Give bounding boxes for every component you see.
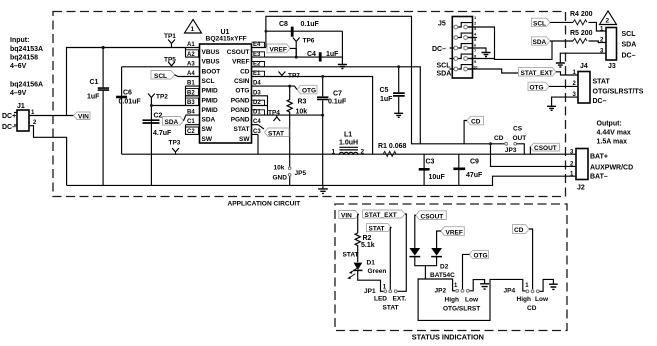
wire J1 pin2 DC- down to ground rail bbox=[29, 126, 67, 186]
svg-text:D1: D1 bbox=[367, 260, 376, 267]
svg-text:BAT–: BAT– bbox=[590, 174, 608, 181]
svg-text:C1: C1 bbox=[187, 119, 195, 125]
capacitor C8 0.1uF bbox=[279, 21, 320, 37]
svg-text:High: High bbox=[445, 297, 459, 304]
ground (J3 DC-) bbox=[556, 63, 565, 67]
svg-text:47uF: 47uF bbox=[466, 172, 483, 179]
svg-text:STAT: STAT bbox=[233, 126, 249, 133]
wire CSIN: E1 right, down between L1 and R1 bbox=[262, 77, 373, 155]
testpoint TP7 bbox=[279, 72, 301, 80]
capacitor C1 1uF bbox=[87, 48, 109, 186]
svg-text:TP7: TP7 bbox=[288, 73, 300, 80]
testpoint TP5 bbox=[164, 57, 176, 67]
net flag VIN bbox=[74, 112, 91, 120]
junction VREF bbox=[295, 56, 298, 59]
svg-text:STAT: STAT bbox=[593, 79, 611, 86]
inductor L1 1.0uH bbox=[332, 132, 365, 156]
wire OTG D4 bbox=[262, 86, 297, 89]
svg-text:B4: B4 bbox=[187, 110, 195, 116]
wire OTG to JP2 mid pin bbox=[463, 254, 470, 289]
svg-text:STAT_EXT: STAT_EXT bbox=[365, 212, 397, 219]
svg-text:STAT: STAT bbox=[343, 252, 359, 259]
U1 left pin names bbox=[202, 49, 221, 143]
testpoint TP3 bbox=[169, 140, 181, 155]
capacitor C5 1uF bbox=[380, 67, 405, 114]
svg-text:Output:: Output: bbox=[597, 121, 622, 128]
svg-text:VBUS: VBUS bbox=[202, 59, 221, 66]
net flag SDA (at U1) bbox=[163, 115, 186, 126]
ground (J5 DC-) bbox=[482, 53, 491, 57]
ground (VREF/C4) bbox=[338, 57, 347, 68]
wire CD: E2 right, down to CD rail bbox=[262, 67, 420, 144]
svg-text:JP2: JP2 bbox=[435, 288, 447, 295]
svg-text:PGND: PGND bbox=[231, 97, 250, 104]
net flag SCL (at U1) bbox=[151, 71, 186, 80]
svg-text:JP4: JP4 bbox=[504, 288, 516, 295]
wire J5 row3 to ground bbox=[468, 48, 486, 53]
capacitor C4 1uF bbox=[307, 51, 339, 62]
U1 left bracket C1-C2 bbox=[185, 125, 187, 135]
net flag CD (above JP3) bbox=[464, 116, 483, 144]
connector J3 bbox=[600, 27, 636, 71]
jumper JP1 bbox=[364, 285, 406, 312]
svg-text:SCL: SCL bbox=[154, 73, 167, 80]
net flag CSOUT (status) bbox=[416, 211, 447, 221]
net flag CSOUT (application circuit) bbox=[530, 143, 560, 154]
svg-text:1uF: 1uF bbox=[380, 96, 393, 103]
svg-text:1uF: 1uF bbox=[326, 51, 339, 58]
wire PMID B3 to C2 bbox=[151, 105, 185, 107]
svg-text:10uF: 10uF bbox=[429, 174, 446, 181]
wire VBUS: VIN up and across to A1 bbox=[67, 48, 186, 116]
svg-text:4–6V: 4–6V bbox=[10, 63, 27, 70]
svg-text:Input:: Input: bbox=[10, 37, 29, 44]
svg-text:PGND: PGND bbox=[231, 117, 250, 124]
IC U1 BQ2415xYFF bbox=[200, 29, 252, 143]
svg-text:BQ2415xYFF: BQ2415xYFF bbox=[206, 35, 247, 42]
dual diode D2 BAT54C bbox=[409, 248, 455, 279]
svg-text:SW: SW bbox=[202, 126, 213, 133]
svg-text:BAT54C: BAT54C bbox=[430, 272, 455, 279]
wire AUXPWR/CD to J2 pin2 bbox=[491, 144, 576, 167]
ground (C5) bbox=[394, 113, 403, 117]
connector J2 bbox=[570, 149, 633, 192]
LED D1 Green bbox=[347, 260, 386, 292]
svg-text:C2: C2 bbox=[154, 113, 163, 120]
svg-text:TP2: TP2 bbox=[156, 94, 168, 101]
svg-text:J5: J5 bbox=[438, 21, 446, 28]
junction CD rail bbox=[489, 142, 492, 145]
net flag VIN (status) bbox=[339, 211, 359, 220]
capacitor C3 10uF bbox=[419, 154, 446, 185]
svg-text:BOOT: BOOT bbox=[202, 68, 221, 75]
net flag STAT_EXT (status) bbox=[363, 210, 406, 219]
jumper JP5 bbox=[273, 165, 307, 186]
net flag STAT_EXT (to J4) bbox=[519, 68, 557, 77]
svg-text:5.1k: 5.1k bbox=[361, 242, 375, 249]
wire J4 pin3 to ground bbox=[552, 97, 578, 106]
note: input voltage text bbox=[10, 37, 43, 97]
resistor R5 200 bbox=[570, 30, 593, 43]
U1 right pin names bbox=[227, 49, 251, 143]
svg-text:bq24153A: bq24153A bbox=[10, 46, 43, 53]
svg-text:SCL: SCL bbox=[533, 20, 546, 27]
wire OTG to J4 pin2 bbox=[549, 85, 578, 87]
svg-text:C6: C6 bbox=[123, 90, 132, 97]
svg-text:PGND: PGND bbox=[231, 107, 250, 114]
U1 boxed pin numbers E4 E3 E2 E1 D2 D1 bbox=[252, 42, 265, 115]
junction OTG/R3 bbox=[288, 85, 291, 88]
svg-text:LED: LED bbox=[374, 296, 387, 303]
net flag VREF (status) bbox=[441, 227, 465, 237]
svg-text:B1: B1 bbox=[187, 81, 195, 87]
wire CD to JP4 pin1 bbox=[529, 229, 533, 289]
svg-text:C7: C7 bbox=[333, 91, 342, 98]
svg-text:10k: 10k bbox=[274, 165, 285, 172]
svg-text:CSOUT: CSOUT bbox=[227, 49, 250, 56]
wire J5 row1 to SDA net bbox=[468, 27, 552, 59]
svg-text:2: 2 bbox=[606, 18, 610, 25]
note triangle 2 bbox=[600, 11, 617, 25]
svg-text:J1: J1 bbox=[17, 103, 25, 110]
connector J5 bbox=[432, 17, 473, 79]
svg-text:SDA: SDA bbox=[437, 71, 452, 78]
svg-text:R3: R3 bbox=[298, 99, 307, 106]
svg-text:OTG: OTG bbox=[474, 252, 488, 259]
svg-text:TP6: TP6 bbox=[303, 38, 315, 45]
testpoint TP6 bbox=[293, 38, 315, 58]
wire BOOT A3 bbox=[122, 66, 186, 68]
junction VBUS/C1 bbox=[102, 46, 105, 49]
svg-text:DC–: DC– bbox=[2, 124, 16, 131]
dashed border: APPLICATION CIRCUIT box bbox=[53, 12, 566, 197]
svg-text:APPLICATION CIRCUIT: APPLICATION CIRCUIT bbox=[228, 200, 301, 207]
junction PGND/C7 bbox=[321, 114, 324, 117]
net flag SDA (to R5) bbox=[532, 37, 551, 46]
svg-text:C5: C5 bbox=[380, 87, 389, 94]
svg-text:STATUS INDICATION: STATUS INDICATION bbox=[412, 333, 484, 342]
U1 left pin numbers bbox=[187, 42, 195, 135]
wire C8 branch bbox=[266, 30, 343, 32]
svg-text:CD: CD bbox=[514, 227, 524, 234]
svg-text:PMID: PMID bbox=[202, 107, 219, 114]
dashed border: STATUS INDICATION box bbox=[335, 204, 567, 331]
svg-text:TP4: TP4 bbox=[268, 110, 280, 117]
svg-text:10k: 10k bbox=[296, 109, 308, 116]
jumper JP3 bbox=[494, 126, 526, 155]
svg-text:R4 200: R4 200 bbox=[570, 11, 593, 18]
svg-text:SCL: SCL bbox=[622, 31, 637, 38]
svg-text:L1: L1 bbox=[344, 132, 352, 139]
svg-text:BAT+: BAT+ bbox=[590, 154, 608, 161]
testpoint TP1 bbox=[164, 33, 176, 48]
svg-text:J2: J2 bbox=[577, 185, 585, 192]
svg-text:OTG: OTG bbox=[235, 88, 249, 95]
svg-text:A3: A3 bbox=[187, 61, 195, 67]
U1 left bracket B1-B3 bbox=[185, 86, 187, 105]
ground (JP2, rotated) bbox=[470, 280, 485, 291]
svg-text:1.0uH: 1.0uH bbox=[339, 140, 358, 147]
jumper JP2 bbox=[435, 283, 481, 313]
resistor R1 0.068 bbox=[378, 143, 407, 156]
wire SCL to R4 to J3 pin1 bbox=[550, 22, 606, 31]
svg-text:bq24158: bq24158 bbox=[10, 55, 38, 62]
svg-text:PMID: PMID bbox=[202, 88, 219, 95]
svg-text:STAT: STAT bbox=[369, 226, 385, 233]
svg-text:OTG: OTG bbox=[302, 87, 316, 94]
resistor R2 5.1k bbox=[355, 233, 375, 262]
svg-text:SCL: SCL bbox=[202, 78, 215, 85]
jumper JP4 bbox=[504, 283, 549, 312]
note: output voltage text bbox=[597, 121, 631, 146]
wire VIN to R2 bbox=[358, 215, 359, 234]
junction CSOUT/C8 bbox=[265, 30, 268, 33]
svg-text:C1: C1 bbox=[90, 79, 99, 86]
capacitor C6 0.01uF (on BOOT line) bbox=[116, 67, 141, 154]
junction PMID bbox=[150, 104, 153, 107]
testpoint TP2 bbox=[148, 94, 168, 101]
svg-text:SW: SW bbox=[239, 136, 250, 143]
wire J3 pin3 to ground bbox=[560, 53, 606, 63]
svg-text:Low: Low bbox=[465, 297, 479, 304]
svg-text:VBUS: VBUS bbox=[202, 49, 221, 56]
svg-text:C9: C9 bbox=[470, 159, 479, 166]
svg-text:2: 2 bbox=[361, 148, 365, 155]
svg-text:D2: D2 bbox=[440, 264, 449, 271]
wire J5 row4 stub bbox=[468, 58, 495, 60]
svg-text:SW: SW bbox=[202, 136, 213, 143]
wire CSOUT to D2 left anode bbox=[415, 215, 416, 248]
svg-text:J3: J3 bbox=[608, 63, 616, 70]
capacitor C2 4.7uF (PMID) bbox=[143, 98, 173, 185]
svg-text:OTG: OTG bbox=[530, 84, 544, 91]
U1 left pin stubs A1-C2 bbox=[186, 48, 200, 135]
svg-text:JP1: JP1 bbox=[364, 288, 376, 295]
wire CSOUT: E4 up over to x411.5 down to CD rail bbox=[266, 16, 506, 144]
junction CSIN/C7 bbox=[321, 75, 324, 78]
svg-text:DC–: DC– bbox=[432, 46, 446, 53]
svg-text:STAT_EXT: STAT_EXT bbox=[521, 70, 553, 77]
wire J1 pin1 to VIN bbox=[29, 115, 74, 117]
wire STAT_EXT to J4 pin1 bbox=[556, 72, 578, 75]
svg-text:PMID: PMID bbox=[202, 97, 219, 104]
svg-text:R2: R2 bbox=[363, 235, 372, 242]
U1 left bracket A1-A2 bbox=[185, 48, 187, 58]
svg-text:VREF: VREF bbox=[270, 46, 287, 53]
svg-text:bq24156A: bq24156A bbox=[10, 82, 43, 89]
wire SW C3 pin down to rail bbox=[257, 134, 259, 154]
wire J5 row5 to STAT_EXT flag bbox=[468, 69, 519, 73]
svg-text:1: 1 bbox=[191, 26, 195, 33]
svg-text:CS: CS bbox=[513, 126, 523, 133]
svg-text:A4: A4 bbox=[187, 71, 195, 77]
svg-text:SDA: SDA bbox=[202, 117, 216, 124]
svg-text:SDA: SDA bbox=[165, 119, 179, 126]
svg-text:CSOUT: CSOUT bbox=[421, 214, 444, 221]
net flag CD (status) bbox=[513, 225, 530, 235]
svg-text:DC–: DC– bbox=[622, 53, 636, 60]
svg-text:TP1: TP1 bbox=[164, 33, 176, 40]
svg-text:VREF: VREF bbox=[232, 59, 249, 66]
svg-text:C3: C3 bbox=[426, 159, 435, 166]
net flag OTG (at U1) bbox=[297, 85, 317, 94]
svg-text:SDA: SDA bbox=[533, 39, 547, 46]
net flag STAT (at U1) bbox=[258, 125, 289, 138]
wire SDA to R5 to J3 pin2 bbox=[550, 41, 606, 43]
svg-text:A1: A1 bbox=[187, 42, 195, 48]
jumper JP2 wiring loop bbox=[418, 279, 526, 320]
J5 row stubs bbox=[450, 38, 478, 70]
svg-text:CD: CD bbox=[494, 135, 504, 142]
svg-text:EXT.: EXT. bbox=[393, 296, 407, 303]
svg-text:4.44V max: 4.44V max bbox=[597, 130, 631, 137]
svg-text:CD: CD bbox=[527, 305, 537, 312]
net flag VREF (at U1) bbox=[267, 44, 296, 57]
wire BAT- from gnd rail to J2 pin1 bbox=[492, 176, 576, 185]
svg-text:0.01uF: 0.01uF bbox=[119, 99, 142, 106]
svg-text:JP3: JP3 bbox=[505, 147, 517, 154]
wire PGND bus D3 D2 D1 bbox=[262, 96, 323, 115]
svg-text:CSIN: CSIN bbox=[234, 78, 250, 85]
connector J4 bbox=[573, 63, 644, 105]
svg-text:1.5A max: 1.5A max bbox=[597, 139, 628, 146]
net flag STAT (status) bbox=[366, 224, 391, 233]
svg-text:STAT: STAT bbox=[383, 305, 399, 312]
svg-text:STAT: STAT bbox=[268, 130, 284, 137]
svg-text:0.1uF: 0.1uF bbox=[301, 21, 320, 28]
wire STAT_EXT to JP1 ext pin bbox=[397, 214, 406, 291]
junction C5/CD bbox=[397, 65, 400, 68]
J5 pin circles and links bbox=[454, 23, 473, 71]
wire VREF E3 to C4 to gnd stem bbox=[262, 31, 342, 57]
svg-text:OTG/SLRST/TS: OTG/SLRST/TS bbox=[593, 89, 644, 96]
capacitor C9 47uF bbox=[453, 154, 483, 185]
svg-text:Low: Low bbox=[535, 296, 549, 303]
testpoint TP4 bbox=[268, 110, 280, 122]
svg-text:DC+: DC+ bbox=[2, 113, 16, 120]
svg-text:C8: C8 bbox=[279, 21, 288, 28]
U1 right pin numbers bbox=[253, 42, 261, 135]
J5 pin number column bbox=[473, 15, 478, 70]
ground (J4 DC-) bbox=[547, 106, 556, 110]
svg-text:Green: Green bbox=[368, 268, 387, 275]
resistor R3 10k bbox=[287, 86, 307, 167]
U1 right pin stubs bbox=[252, 48, 266, 135]
svg-text:DC–: DC– bbox=[593, 98, 607, 105]
U1 boxed pin numbers A2 B2 B3 C2 bbox=[186, 50, 199, 135]
svg-text:R1 0.068: R1 0.068 bbox=[378, 143, 407, 150]
svg-text:OTG/SLRST: OTG/SLRST bbox=[443, 306, 480, 313]
svg-text:C4: C4 bbox=[307, 51, 316, 58]
wire STAT to JP1 mid pin bbox=[390, 228, 391, 290]
svg-text:1uF: 1uF bbox=[87, 94, 100, 101]
svg-text:4.7uF: 4.7uF bbox=[153, 130, 172, 137]
svg-text:R5 200: R5 200 bbox=[570, 30, 593, 37]
wire VREF to D2 right anode bbox=[437, 231, 441, 248]
net flag SCL (to R4) bbox=[532, 18, 551, 27]
svg-text:1: 1 bbox=[332, 148, 336, 155]
capacitor C7 0.1uF (x=322.7 vertical) bbox=[317, 77, 347, 186]
svg-text:CSOUT: CSOUT bbox=[534, 145, 557, 152]
svg-text:VREF: VREF bbox=[446, 230, 463, 237]
ground (JP4, rotated) bbox=[540, 279, 554, 291]
svg-text:CD: CD bbox=[240, 68, 250, 75]
svg-text:J4: J4 bbox=[580, 63, 588, 70]
svg-text:JP5: JP5 bbox=[295, 170, 307, 177]
svg-text:VIN: VIN bbox=[78, 113, 89, 120]
resistor R4 200 bbox=[570, 11, 593, 25]
ground (main rail) bbox=[322, 185, 324, 189]
svg-text:SCL: SCL bbox=[437, 63, 452, 70]
svg-text:SDA: SDA bbox=[622, 42, 637, 49]
svg-text:AUXPWR/CD: AUXPWR/CD bbox=[590, 165, 633, 172]
net flag OTG (status) bbox=[469, 250, 489, 259]
connector J1 bbox=[2, 103, 37, 131]
svg-text:0.1uF: 0.1uF bbox=[328, 99, 347, 106]
svg-text:VIN: VIN bbox=[341, 213, 352, 220]
svg-text:TP3: TP3 bbox=[169, 140, 181, 147]
wire SW/BAT rail bbox=[67, 154, 576, 185]
svg-text:High: High bbox=[517, 296, 531, 303]
svg-text:4–9V: 4–9V bbox=[10, 90, 27, 97]
note triangle 1 bbox=[185, 20, 202, 34]
svg-text:GND: GND bbox=[273, 175, 288, 182]
svg-text:CD: CD bbox=[471, 119, 481, 126]
svg-text:OUT: OUT bbox=[513, 135, 527, 142]
net flag OTG (to J4) bbox=[528, 82, 549, 91]
